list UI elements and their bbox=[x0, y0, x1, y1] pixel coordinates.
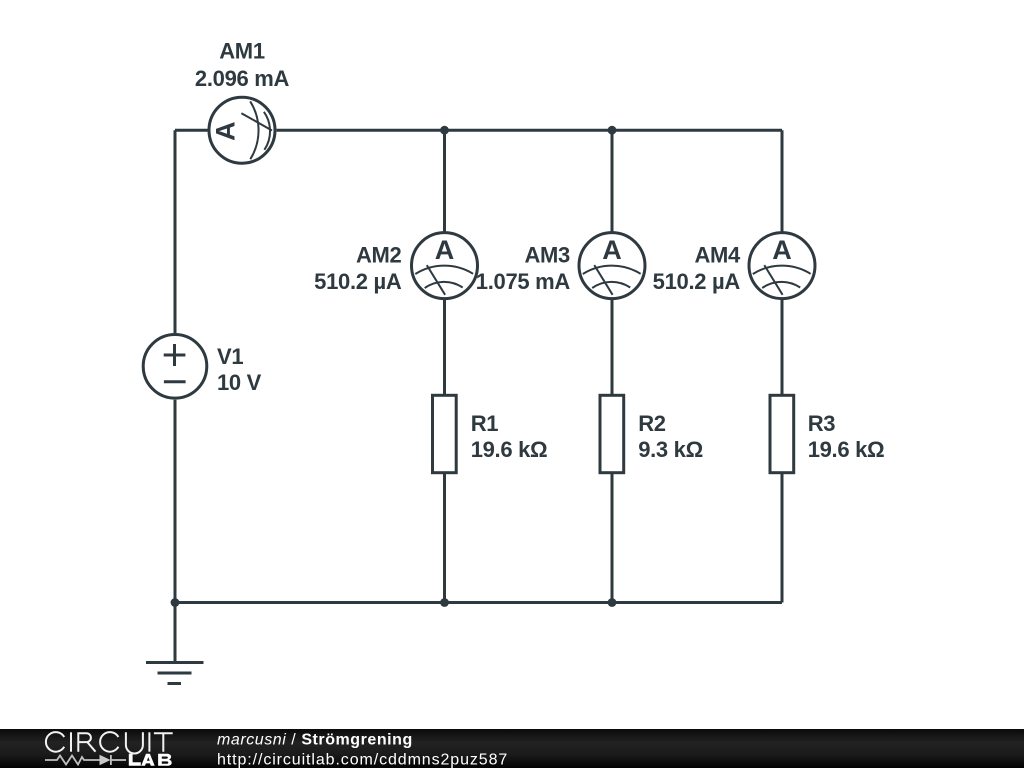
resistor R1 bbox=[433, 395, 457, 472]
junction dot bottom left bbox=[171, 598, 180, 607]
svg-text:R2: R2 bbox=[638, 411, 666, 436]
svg-text:A: A bbox=[602, 235, 622, 265]
junction dot top AM2 bbox=[440, 126, 449, 135]
junction dot top AM3 bbox=[608, 126, 617, 135]
svg-text:510.2 µA: 510.2 µA bbox=[314, 269, 402, 294]
footer bar bbox=[0, 729, 1024, 768]
wire ground stub bbox=[174, 603, 177, 663]
wire top rail (AM1 to right corner) bbox=[277, 129, 782, 132]
ammeter AM1 bbox=[209, 97, 275, 163]
svg-text:2.096 mA: 2.096 mA bbox=[195, 66, 290, 91]
wire branch AM4 top (right vertical) bbox=[781, 130, 784, 231]
svg-text:A: A bbox=[211, 121, 241, 141]
wire branch R2 to bottom rail bbox=[611, 474, 614, 603]
logo wire resistor diode bbox=[45, 755, 126, 765]
logo diode triangle bbox=[100, 755, 111, 766]
ground bbox=[146, 663, 204, 684]
svg-text:1.075 mA: 1.075 mA bbox=[476, 269, 571, 294]
wire bottom rail bbox=[175, 601, 782, 604]
ammeter AM3 bbox=[579, 233, 645, 299]
voltage source V1 bbox=[143, 335, 207, 399]
wire branch AM4 to R3 bbox=[781, 300, 784, 394]
svg-text:http://circuitlab.com/cddmns2p: http://circuitlab.com/cddmns2puz587 bbox=[217, 751, 508, 768]
ammeter AM2 bbox=[412, 233, 478, 299]
wire branch R3 to bottom rail bbox=[781, 474, 784, 603]
svg-text:AM2: AM2 bbox=[356, 243, 402, 268]
svg-text:AM3: AM3 bbox=[524, 243, 570, 268]
junction dot bottom AM2 bbox=[440, 598, 449, 607]
svg-text:A: A bbox=[772, 235, 792, 265]
svg-text:19.6 kΩ: 19.6 kΩ bbox=[808, 437, 885, 462]
svg-text:10 V: 10 V bbox=[217, 370, 262, 395]
resistor R2 bbox=[600, 395, 624, 472]
svg-text:AM1: AM1 bbox=[219, 39, 265, 64]
svg-text:A: A bbox=[435, 235, 455, 265]
wire branch R1 to bottom rail bbox=[443, 474, 446, 603]
ammeter AM4 bbox=[749, 233, 815, 299]
junction dot bottom AM3 bbox=[608, 598, 617, 607]
svg-text:510.2 µA: 510.2 µA bbox=[653, 269, 741, 294]
svg-text:R3: R3 bbox=[808, 411, 836, 436]
wire left vertical bottom (V1 to bottom rail) bbox=[174, 400, 177, 603]
svg-text:9.3 kΩ: 9.3 kΩ bbox=[638, 437, 703, 462]
wire left vertical top (V1 to top rail) bbox=[174, 130, 177, 333]
wire branch AM2 to R1 bbox=[443, 300, 446, 394]
svg-text:19.6 kΩ: 19.6 kΩ bbox=[471, 437, 548, 462]
resistor R3 bbox=[770, 395, 794, 472]
svg-text:AM4: AM4 bbox=[694, 243, 741, 268]
wire branch AM3 top bbox=[611, 130, 614, 231]
wire branch AM3 to R2 bbox=[611, 300, 614, 394]
wire top rail left (to AM1) bbox=[175, 129, 208, 132]
logo CIRCUIT letters bbox=[46, 732, 173, 753]
svg-text:R1: R1 bbox=[471, 411, 499, 436]
wire branch AM2 top bbox=[443, 130, 446, 231]
svg-text:marcusni / Strömgrening: marcusni / Strömgrening bbox=[217, 732, 413, 749]
svg-text:V1: V1 bbox=[217, 344, 243, 369]
logo LAB letters bbox=[129, 754, 172, 766]
